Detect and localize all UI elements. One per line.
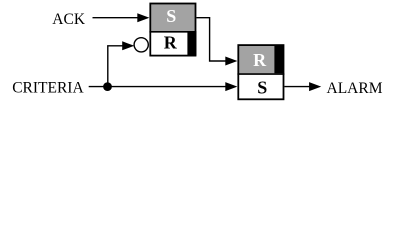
U2 R section black strip	[274, 45, 283, 73]
U1 divider	[149, 31, 196, 33]
svg-text:ACK: ACK	[52, 11, 86, 28]
latch U2 (right R/S block)	[237, 45, 284, 99]
svg-text:R: R	[253, 50, 267, 70]
U1 S section (gray)	[150, 3, 196, 32]
svg-text:ALARM: ALARM	[327, 80, 383, 97]
svg-text:S: S	[257, 77, 267, 97]
svg-text:R: R	[164, 32, 178, 52]
wire U2 output to ALARM	[284, 82, 321, 91]
U1 border	[150, 4, 195, 56]
U1 R section black strip	[187, 32, 196, 56]
wire ACK to S input of U1	[93, 13, 150, 22]
U2 divider	[237, 73, 284, 75]
wire CRITERIA to S input of U2	[89, 82, 238, 91]
wire junction up to inverter	[108, 41, 135, 86]
U2 R section (gray)	[238, 45, 284, 74]
inverter bubble at R input of U1	[134, 38, 148, 52]
junction node (CRITERIA branch)	[103, 82, 112, 91]
latch U1 (left S/R block)	[149, 3, 196, 55]
svg-text:CRITERIA: CRITERIA	[12, 79, 84, 96]
wire U1 S output to R input of U2	[196, 18, 237, 66]
U2 border	[238, 45, 283, 99]
svg-text:S: S	[166, 6, 176, 26]
